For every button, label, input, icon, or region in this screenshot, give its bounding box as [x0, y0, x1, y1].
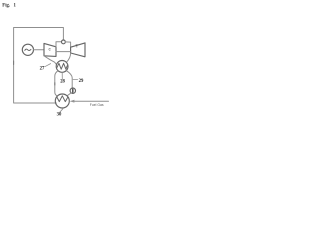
svg-text:Fuel Gas: Fuel Gas	[90, 103, 104, 107]
svg-text:T: T	[76, 44, 79, 49]
svg-text:27: 27	[40, 66, 45, 71]
svg-text:28: 28	[60, 79, 65, 84]
svg-text:Fig.: Fig.	[2, 3, 10, 8]
svg-text:29: 29	[79, 79, 84, 84]
svg-text:30: 30	[57, 113, 62, 118]
